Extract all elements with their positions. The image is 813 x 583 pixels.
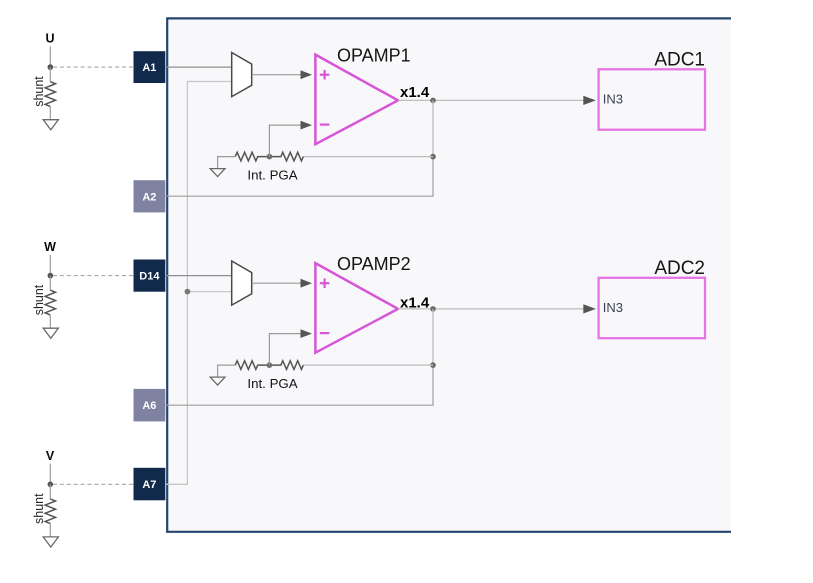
svg-text:W: W <box>44 240 56 254</box>
port label IN3 (1) <box>603 92 623 107</box>
resistor value label "shunt" (U) <box>32 76 46 107</box>
wire mux output to opamp + input <box>252 279 312 288</box>
wire feedback horizontal 2 <box>303 364 433 366</box>
label Int. PGA (1) <box>247 168 297 183</box>
junction dot PGA (2) <box>267 362 273 368</box>
pin A2 <box>134 180 166 212</box>
wire (dashed) W to pin <box>53 275 134 277</box>
junction dot V <box>48 482 54 488</box>
wire PGA tap to opamp - input (1) <box>269 121 312 157</box>
ground (V) <box>43 537 58 547</box>
wire feedback vertical 2 <box>432 309 434 365</box>
svg-text:IN3: IN3 <box>603 300 623 315</box>
svg-text:A1: A1 <box>142 62 156 74</box>
gain label x1.4 (2) <box>400 295 430 312</box>
wire to pin below opamp 1 <box>165 157 433 197</box>
svg-text:Int. PGA: Int. PGA <box>247 376 297 391</box>
svg-text:x1.4: x1.4 <box>400 84 430 101</box>
svg-text:Int. PGA: Int. PGA <box>247 168 297 183</box>
svg-text:x1.4: x1.4 <box>400 295 430 312</box>
mux MUX1 <box>232 53 252 97</box>
resistor PGA-a (2) <box>235 361 269 370</box>
svg-text:A6: A6 <box>142 400 156 412</box>
wire feedback horizontal 1 <box>303 156 433 158</box>
resistor value label "shunt" (W) <box>32 284 46 315</box>
ground PGA (1) <box>210 157 235 177</box>
wire opamp output <box>398 96 596 105</box>
junction dot A7 net <box>185 289 191 295</box>
junction dot output 2 <box>430 306 436 312</box>
wire W to junction <box>49 255 51 276</box>
label OPAMP2 <box>337 254 411 274</box>
gain label x1.4 (1) <box>400 84 430 101</box>
chip boundary <box>167 18 731 531</box>
svg-text:D14: D14 <box>139 271 160 283</box>
svg-text:U: U <box>45 32 54 46</box>
wire mux output to opamp + input <box>252 70 312 79</box>
wire PGA tap to opamp - input (2) <box>269 329 312 365</box>
resistor PGA-b (1) <box>269 152 303 161</box>
resistor PGA-a (1) <box>235 152 269 161</box>
label Int. PGA (2) <box>247 376 297 391</box>
wire feedback vertical 1 <box>432 100 434 156</box>
svg-text:ADC1: ADC1 <box>654 50 705 71</box>
node U <box>45 32 54 46</box>
resistor shunt (U) <box>45 67 55 120</box>
ADC2 block <box>599 258 705 338</box>
wire U to junction <box>49 47 51 68</box>
wire V to junction <box>49 464 51 485</box>
wire pin to mux 2 <box>165 275 231 277</box>
wire to pin below opamp 2 <box>165 365 433 405</box>
pin A6 <box>134 389 166 422</box>
port label IN3 (2) <box>603 300 623 315</box>
svg-text:ADC2: ADC2 <box>654 258 705 279</box>
wire net A7 to mux inputs <box>165 82 231 485</box>
wire opamp output <box>398 304 596 313</box>
resistor shunt (V) <box>45 484 55 537</box>
svg-text:OPAMP2: OPAMP2 <box>337 254 411 274</box>
op-amp OPAMP2 <box>315 263 398 353</box>
svg-text:IN3: IN3 <box>603 92 623 107</box>
wire pin to mux 1 <box>165 66 231 68</box>
resistor PGA-b (2) <box>269 361 303 370</box>
node V <box>46 449 55 463</box>
ADC1 block <box>599 50 705 130</box>
svg-text:shunt: shunt <box>32 284 46 315</box>
resistor value label "shunt" (V) <box>32 493 46 524</box>
svg-text:shunt: shunt <box>32 493 46 524</box>
svg-text:shunt: shunt <box>32 76 46 107</box>
wire (dashed) U to pin <box>53 66 134 68</box>
wire (dashed) V to pin <box>53 483 134 485</box>
pin A7 <box>134 468 166 501</box>
junction dot output 1 <box>430 98 436 104</box>
label OPAMP1 <box>337 46 411 66</box>
junction dot U <box>48 64 54 70</box>
svg-text:A7: A7 <box>142 479 156 491</box>
ground (U) <box>43 120 58 130</box>
pin D14 <box>134 260 166 292</box>
ground (W) <box>43 328 58 338</box>
junction dot W <box>48 273 54 279</box>
svg-text:A2: A2 <box>142 191 156 203</box>
svg-text:OPAMP1: OPAMP1 <box>337 46 411 66</box>
junction dot feedback 1 <box>430 154 436 160</box>
pin A1 <box>134 51 166 83</box>
ground PGA (2) <box>210 365 235 385</box>
junction dot PGA (1) <box>267 154 273 160</box>
junction dot feedback 2 <box>430 362 436 368</box>
mux MUX2 <box>232 261 252 305</box>
resistor shunt (W) <box>45 276 55 329</box>
op-amp OPAMP1 <box>315 55 398 145</box>
node W <box>44 240 56 254</box>
svg-text:V: V <box>46 449 55 463</box>
